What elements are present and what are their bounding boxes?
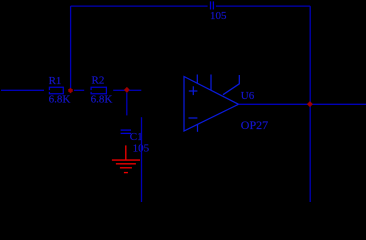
wire node B down to C1 [126, 93, 128, 116]
svg-text:U6: U6 [241, 90, 255, 102]
wire input left [1, 89, 44, 91]
wire R2 to node B [113, 89, 125, 91]
ground [112, 145, 140, 172]
svg-text:OP27: OP27 [241, 118, 268, 132]
wire node A up to top rail [70, 6, 72, 88]
resistor R2 [91, 87, 106, 93]
op-amp plus symbol [189, 90, 198, 92]
svg-text:R1: R1 [49, 75, 62, 87]
svg-text:105: 105 [210, 10, 227, 22]
svg-text:6.8K: 6.8K [49, 94, 71, 106]
node B junction [124, 87, 130, 93]
svg-text:R2: R2 [92, 75, 105, 87]
wire top rail right [216, 5, 310, 7]
svg-text:C1: C1 [130, 131, 143, 143]
wire op-amp output [239, 103, 366, 105]
resistor R1 [49, 87, 63, 93]
output node junction [307, 101, 313, 107]
capacitor (feedback) plates [210, 1, 212, 9]
wire node A to R2 [74, 89, 84, 91]
op-amp minus symbol [189, 117, 198, 119]
op-amp U6 triangle [184, 77, 239, 132]
op-amp V- pin stub [197, 124, 199, 132]
wire top rail left [71, 5, 208, 7]
op-amp pin stub 2 (top) [210, 75, 212, 91]
wire node B right stub [129, 89, 141, 91]
op-amp V+ pin stub [196, 75, 198, 84]
op-amp diagonal comp pin [223, 84, 239, 95]
node A junction [68, 88, 72, 93]
wire inverting branch vertical [141, 117, 143, 202]
capacitor C1 plates [121, 129, 131, 131]
wire right vertical down [309, 6, 311, 202]
svg-text:6.8K: 6.8K [91, 94, 113, 106]
